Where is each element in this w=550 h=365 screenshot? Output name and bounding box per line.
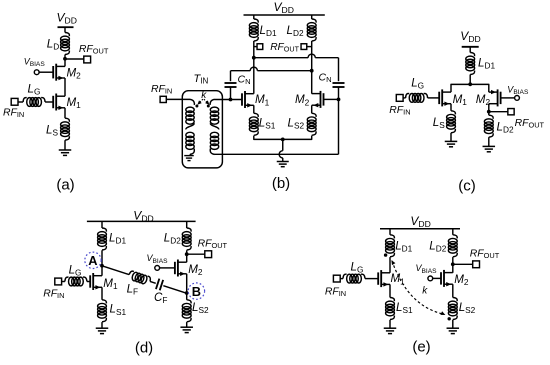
terminal RFOUT (a)	[84, 56, 91, 63]
wire M2 source to M1 drain (a)	[64, 78, 66, 96]
wire VBIAS to M2 gate (e)	[433, 277, 441, 279]
svg-text:(a): (a)	[56, 177, 74, 194]
terminal VBIAS (c)	[515, 96, 520, 101]
terminal RFOUT (d)	[205, 251, 212, 258]
inductor LD (a)	[65, 33, 69, 37]
inductor LS (c)	[451, 111, 455, 115]
wire M1 source to LS1 (d)	[101, 287, 103, 300]
inductor LD1 (d)	[101, 221, 103, 228]
transistor M1 (b)	[245, 93, 254, 95]
feedback branch A to B with LF and CF (d)	[100, 261, 188, 299]
power rail VDD (b)	[244, 14, 325, 16]
terminal VBIAS (e)	[428, 276, 433, 281]
wire M2 source down (c)	[488, 104, 490, 116]
ground left (c)	[445, 140, 458, 142]
inductor LD2 (d)	[186, 221, 188, 228]
svg-text:(e): (e)	[412, 339, 430, 356]
wire M1 source to LS (c)	[450, 104, 452, 111]
wire LD1 to M1 drain (e)	[389, 257, 391, 273]
power rail VDD (a)	[58, 26, 74, 28]
svg-text:RFIN: RFIN	[3, 108, 24, 120]
wire M2 source to LS2 (e)	[452, 284, 454, 297]
terminal VBIAS (a)	[34, 70, 39, 75]
wire CN left to M1 gate (b)	[230, 87, 232, 100]
wire CN right riser (b)	[338, 87, 340, 154]
wire LD1 to M1 drain (b)	[253, 41, 255, 94]
capacitor CN right (b)	[333, 82, 345, 84]
svg-text:RFOUT: RFOUT	[79, 44, 109, 56]
wire M1 source to LS1 (e)	[389, 284, 391, 297]
wire primary to ground (b)	[189, 154, 191, 155]
coupling dot LS2 (e)	[448, 317, 451, 320]
coupling dots transformer (b)	[195, 105, 198, 108]
terminal RFIN (b)	[160, 96, 166, 102]
inductor LS2 (b)	[311, 105, 313, 113]
wire RFIN to primary (b)	[166, 98, 190, 100]
wire LG to M1 gate (c)	[428, 97, 440, 99]
transistor M2 (d)	[178, 261, 187, 263]
terminal RFIN (a)	[11, 98, 18, 105]
svg-text:RFOUT: RFOUT	[515, 118, 545, 130]
wire M2 gate to riser (b)	[324, 98, 339, 100]
wire LD2 to M2 drain (b)	[311, 41, 313, 94]
capacitor CN left (b)	[225, 82, 237, 84]
terminal RFOUT left (b)	[257, 44, 263, 50]
node drain of M2 / output (a)	[63, 57, 67, 61]
svg-text:B: B	[192, 284, 201, 299]
power rail VDD (c)	[462, 46, 479, 48]
stub to left RFOUT (b)	[254, 46, 257, 48]
terminal RFOUT right (b)	[301, 44, 307, 50]
ground right (c)	[483, 145, 496, 147]
coupling dot LD1 (e)	[384, 253, 387, 256]
wire LD1 to node (c)	[469, 75, 471, 85]
transistor M1 (c)	[442, 91, 451, 93]
svg-text:(b): (b)	[272, 175, 290, 192]
wire RFIN to LG (c)	[403, 97, 406, 99]
svg-text:A: A	[88, 253, 97, 268]
inductor LS1 (e)	[390, 298, 394, 302]
node output (d)	[185, 252, 189, 256]
svg-text:RFOUT: RFOUT	[470, 248, 500, 260]
inductor LD2 (b)	[311, 15, 313, 19]
power rail VDD (d)	[87, 220, 196, 222]
ground left (d)	[96, 327, 109, 329]
terminal VBIAS (d)	[155, 266, 160, 271]
wire node to RFOUT (a)	[65, 58, 84, 60]
terminal RFIN (d)	[55, 278, 62, 285]
node A dot (d)	[100, 264, 104, 268]
inductor LD1 (b)	[253, 15, 255, 19]
svg-text:RFOUT: RFOUT	[270, 42, 299, 54]
svg-text:RFIN: RFIN	[43, 289, 64, 301]
wire LS1 to ground (d)	[101, 322, 103, 328]
inductor LG (a)	[23, 98, 27, 102]
terminal RFOUT (e)	[473, 261, 480, 268]
wire LD2 to M2 drain (e)	[452, 257, 454, 273]
wire common to ground with hop (b)	[282, 139, 284, 150]
wire LD2 to M2 (d)	[186, 250, 188, 262]
node left drain (b)	[252, 56, 256, 60]
transistor M2 (e)	[444, 272, 453, 274]
wire LS2 to ground (d)	[186, 322, 188, 327]
stub to right RFOUT (b)	[307, 46, 312, 48]
transformer primary winding (b)	[190, 99, 194, 105]
wire M2 source to node B (d)	[186, 274, 188, 300]
terminal RFIN (c)	[396, 95, 403, 102]
inductor LD1 (e)	[389, 229, 391, 235]
wire VDD to LD1 (c)	[469, 47, 471, 53]
wire LG to M1 gate (e)	[365, 278, 378, 280]
node M1 gate (b)	[229, 98, 233, 102]
wire M1 source to LS1 (b)	[253, 105, 255, 113]
inductor LS2 (d)	[187, 300, 191, 304]
inductor LS1 (d)	[102, 300, 106, 304]
wire LS1 to ground (e)	[389, 320, 391, 328]
wire secondary bottom rail (b)	[215, 153, 339, 155]
wire node to RFOUT (e)	[453, 263, 473, 265]
transformer secondary winding (b)	[210, 99, 214, 105]
wire LS2 to ground (e)	[452, 320, 454, 328]
ground transformer (b)	[184, 155, 194, 157]
node source common (b)	[281, 138, 285, 142]
wire node to RFOUT (d)	[187, 253, 205, 255]
terminal RFOUT (c)	[508, 109, 514, 115]
power rail VDD (e)	[380, 228, 460, 230]
transistor M1 (d)	[93, 275, 102, 277]
svg-text:(d): (d)	[135, 340, 153, 357]
coupling k dashed arrows (b)	[199, 99, 203, 103]
wire LD to drain node (a)	[64, 55, 66, 67]
svg-text:RFIN: RFIN	[325, 286, 346, 298]
ground center (b)	[277, 161, 289, 163]
node A circle (d)	[85, 252, 101, 268]
inductor LD2 (c)	[489, 115, 493, 119]
wire LS to ground (a)	[64, 140, 66, 150]
wire M2 gate to vbias (c)	[501, 97, 515, 99]
node output (e)	[451, 262, 455, 266]
transformer TIN box (b)	[182, 91, 222, 168]
node common drain (c)	[468, 82, 472, 86]
node M2 gate (b)	[337, 98, 341, 102]
transistor M2 (a)	[56, 65, 65, 67]
wire cross-couple left drain to right CN (b)	[254, 57, 308, 59]
wire LG to M1 gate (d)	[87, 281, 90, 283]
coupling k dashed arc (e)	[392, 261, 444, 315]
inductor LD2 (e)	[452, 229, 454, 235]
transistor M1 (a)	[56, 95, 65, 97]
wire cross-couple right drain to left CN (b)	[231, 70, 251, 72]
terminal RFIN (e)	[333, 275, 340, 282]
transistor M2 (c)	[489, 91, 498, 93]
svg-text:(c): (c)	[458, 178, 476, 195]
svg-text:RFOUT: RFOUT	[198, 238, 228, 250]
wire LG to M1 gate (a)	[45, 101, 53, 103]
wire M1 source to LS (a)	[64, 108, 66, 118]
ground right (d)	[180, 326, 193, 328]
inductor LS (a)	[65, 118, 69, 122]
wire RFIN to LG (e)	[340, 278, 343, 280]
ground left (e)	[384, 327, 397, 329]
wire crossbar (c)	[451, 84, 489, 92]
inductor LS2 (e)	[453, 298, 457, 302]
inductor LS1 (b)	[254, 113, 258, 117]
svg-text:RFIN: RFIN	[389, 105, 410, 117]
ground (a)	[59, 149, 72, 151]
wire VDD to LD (a)	[64, 27, 66, 32]
wire RFIN to LG (d)	[61, 281, 65, 283]
inductor LG (d)	[65, 277, 69, 281]
inductor LD1 (c)	[470, 53, 474, 57]
ground right (e)	[447, 327, 460, 329]
wire gate node to M1 (b)	[215, 99, 243, 101]
svg-text:RFIN: RFIN	[151, 84, 172, 96]
wire VBIAS to M2 gate (d)	[160, 267, 175, 269]
wire LD2 to ground (c)	[488, 137, 490, 146]
node B dot (d)	[185, 291, 189, 295]
wire LS to ground (c)	[450, 133, 452, 142]
wire node to RFOUT (c)	[489, 111, 509, 113]
wire VBIAS to M2 gate (a)	[39, 71, 53, 73]
node output (c)	[487, 110, 491, 114]
wire LD1 to node A (d)	[101, 250, 103, 275]
node B circle (d)	[188, 283, 204, 299]
inductor LG (c)	[406, 93, 410, 97]
inductor LG (e)	[343, 274, 347, 278]
transistor M2 (b)	[312, 93, 321, 95]
node right drain (b)	[310, 69, 314, 73]
transistor M1 (e)	[381, 272, 390, 274]
wire RFIN to LG (a)	[18, 101, 24, 103]
wire LS1 LS2 common (b)	[254, 136, 312, 140]
